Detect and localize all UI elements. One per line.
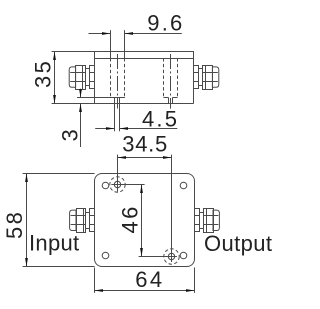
svg-text:58: 58 bbox=[2, 210, 27, 239]
bottom view box outline bbox=[95, 174, 195, 267]
bottom view right connector bbox=[194, 208, 219, 232]
dimension 3 arrows bbox=[79, 89, 82, 147]
svg-text:4.5: 4.5 bbox=[142, 106, 179, 131]
corner hole bottom-left bbox=[102, 252, 109, 259]
dimension 4.5 bbox=[95, 127, 177, 130]
top mounting hole centerlines bbox=[111, 155, 144, 192]
right hole centerline bbox=[170, 54, 172, 109]
svg-text:34.5: 34.5 bbox=[122, 132, 168, 157]
left hole hidden edge right bbox=[124, 30, 126, 97]
dimension 35 bbox=[53, 51, 56, 104]
svg-text:Input: Input bbox=[29, 231, 79, 256]
top mounting hole small circle bbox=[114, 181, 120, 187]
dimension 64 bbox=[95, 268, 195, 293]
top view lid parting line bbox=[94, 58, 194, 60]
right hole hidden edge right bbox=[177, 58, 179, 97]
right hole bottom line bbox=[164, 97, 169, 99]
right small hole edges bbox=[169, 98, 173, 104]
dimension 34.5 bbox=[118, 156, 172, 159]
svg-text:35: 35 bbox=[31, 59, 56, 88]
right hole hidden edge left bbox=[163, 58, 165, 97]
left hole bottom line with extension bbox=[77, 97, 125, 99]
left hole centerline bbox=[117, 54, 119, 109]
left hole hidden edge left bbox=[110, 30, 112, 97]
dimension 9.6 bbox=[89, 32, 182, 35]
top view right connector bbox=[194, 65, 219, 89]
left small hole edges / 4.5 extension lines bbox=[115, 97, 120, 131]
bottom mounting hole centerlines bbox=[139, 155, 177, 262]
svg-text:Output: Output bbox=[204, 231, 272, 256]
svg-text:64: 64 bbox=[135, 267, 164, 292]
corner hole bottom-right bbox=[180, 252, 187, 259]
bottom mounting hole small circle bbox=[168, 253, 174, 259]
svg-text:9.6: 9.6 bbox=[147, 10, 184, 35]
bottom view left connector bbox=[70, 208, 95, 232]
svg-text:46: 46 bbox=[118, 204, 143, 233]
bottom mounting hole dashed circle bbox=[164, 249, 179, 264]
corner hole top-right bbox=[180, 182, 187, 189]
top view box outline bbox=[52, 51, 194, 104]
dimension 46 bbox=[140, 185, 143, 257]
dimension 58 bbox=[23, 174, 95, 267]
corner hole top-left bbox=[102, 182, 109, 189]
svg-text:3: 3 bbox=[58, 129, 83, 141]
top view left connector bbox=[69, 65, 94, 89]
top mounting hole dashed circle bbox=[110, 177, 125, 192]
